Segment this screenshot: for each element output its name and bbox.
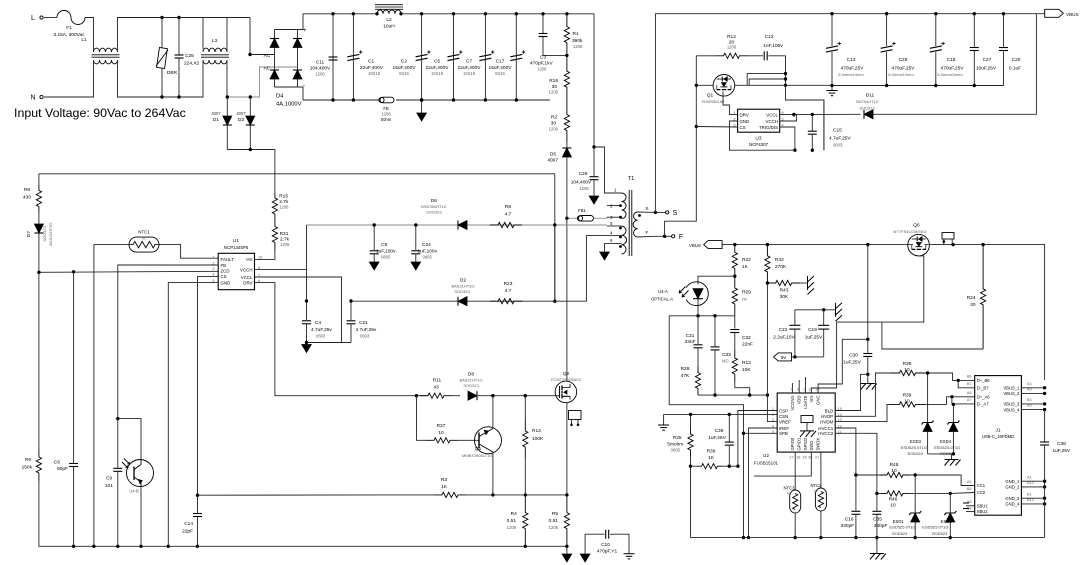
svg-text:10: 10	[890, 503, 896, 509]
wire U3 GND	[730, 121, 794, 150]
resistor R4	[523, 495, 528, 546]
jumper near Q6	[942, 233, 954, 240]
wire R45 to CC1	[910, 475, 975, 486]
svg-text:C6: C6	[54, 460, 60, 466]
wire sense node	[493, 494, 567, 496]
resistor R3	[434, 492, 466, 497]
wire aux line to C4 node	[306, 225, 308, 301]
thermistor NTC2	[820, 452, 822, 488]
svg-text:470uF,25V: 470uF,25V	[941, 66, 965, 72]
TVS ESD1	[914, 475, 916, 513]
svg-text:CS: CS	[221, 274, 227, 279]
svg-text:U3: U3	[755, 136, 761, 142]
net tag 5V	[774, 353, 792, 361]
wire D11 to VBUS rail	[873, 14, 1036, 115]
svg-text:100K: 100K	[532, 436, 544, 442]
wire Q1 gate to DRV	[723, 92, 738, 115]
svg-text:0ohm: 0ohm	[381, 117, 392, 122]
svg-text:ESD5Z5.0T1G: ESD5Z5.0T1G	[901, 445, 927, 450]
T1 pin 3	[607, 216, 622, 218]
common-mode choke L3	[203, 48, 227, 52]
common-mode choke L1	[94, 48, 118, 52]
svg-text:+: +	[303, 28, 307, 34]
wire BLD	[835, 374, 868, 410]
svg-text:R42: R42	[775, 257, 784, 263]
svg-text:C15: C15	[833, 128, 842, 134]
T1 pin 4	[607, 235, 622, 237]
svg-text:SPB: SPB	[779, 431, 788, 436]
wire F node vertical	[695, 56, 697, 127]
svg-text:B4: B4	[1027, 398, 1032, 402]
bus DC+ top rail	[303, 13, 377, 15]
wire D2 line	[351, 300, 555, 302]
svg-text:1K: 1K	[441, 484, 448, 490]
wire D1 D3 join to R15 column	[227, 150, 275, 194]
svg-text:USB-C_16PDMD: USB-C_16PDMD	[982, 434, 1014, 439]
svg-text:22pF: 22pF	[182, 529, 193, 535]
svg-text:ESD3: ESD3	[910, 439, 922, 444]
resistor R9	[36, 449, 41, 481]
MOSFET Q2	[555, 381, 577, 403]
svg-text:D5: D5	[550, 152, 556, 158]
svg-text:4.7: 4.7	[505, 288, 512, 294]
svg-text:CC2: CC2	[977, 490, 986, 495]
svg-text:U1: U1	[233, 238, 239, 244]
svg-text:104,400V: 104,400V	[571, 180, 592, 186]
bus output gnd rail	[832, 85, 1004, 87]
svg-text:VCCL: VCCL	[766, 112, 778, 117]
svg-text:A1: A1	[1027, 475, 1032, 479]
svg-text:1206: 1206	[549, 525, 559, 530]
wire ESD gnd	[928, 453, 954, 455]
wire left column down	[38, 174, 40, 185]
svg-text:NTC1: NTC1	[138, 230, 150, 235]
capacitor C25	[178, 18, 180, 55]
svg-text:6.3mmx04mm: 6.3mmx04mm	[937, 72, 963, 77]
wire R3 line	[198, 494, 435, 496]
connector J1 USB-C_16PDMD	[975, 376, 1022, 516]
wire GND pins to column	[1021, 480, 1044, 482]
svg-text:ZCD: ZCD	[221, 269, 230, 274]
svg-text:1uF,25V: 1uF,25V	[708, 435, 726, 441]
wire HVDP to R38	[835, 373, 890, 416]
svg-text:0603: 0603	[316, 334, 326, 339]
svg-text:R22: R22	[742, 257, 751, 263]
svg-text:330pF: 330pF	[841, 523, 855, 529]
resistor R12	[696, 55, 715, 57]
svg-text:R12: R12	[727, 34, 736, 40]
svg-text:B7: B7	[967, 382, 972, 386]
svg-text:R23: R23	[504, 281, 513, 287]
wire VBUS pins to C38 column	[1021, 387, 1044, 389]
svg-text:GND: GND	[221, 280, 231, 285]
capacitor C19	[823, 310, 825, 325]
wire C30 node to U2	[818, 339, 868, 393]
svg-text:F: F	[646, 230, 649, 236]
svg-text:0.51: 0.51	[507, 518, 517, 524]
svg-text:DRV: DRV	[243, 280, 252, 285]
svg-text:B1: B1	[1027, 492, 1032, 496]
T1 secondary dot	[638, 214, 641, 217]
svg-text:ESD1: ESD1	[893, 519, 905, 524]
svg-text:HVCC1: HVCC1	[818, 426, 833, 431]
diode D5	[566, 142, 568, 148]
svg-text:C22: C22	[779, 327, 788, 333]
svg-text:C14: C14	[184, 521, 193, 527]
wire aux to D2 line	[554, 225, 556, 301]
capacitor C15	[811, 114, 813, 130]
wire HVDM to R39	[835, 404, 890, 421]
svg-text:224,X2: 224,X2	[184, 61, 200, 67]
svg-text:A6: A6	[967, 391, 972, 395]
svg-text:R6: R6	[505, 204, 511, 210]
capacitor C14	[197, 495, 199, 513]
svg-text:C33: C33	[722, 352, 731, 358]
wire U1 VCCL to C4 bottom rail	[255, 277, 342, 343]
wire aux winding line	[307, 224, 608, 226]
svg-text:R28: R28	[681, 366, 690, 372]
svg-text:10uF,25V: 10uF,25V	[976, 66, 997, 72]
svg-text:SBU2: SBU2	[977, 509, 989, 514]
svg-text:R39: R39	[903, 393, 912, 399]
svg-text:470pF,Y1: 470pF,Y1	[597, 549, 618, 555]
svg-text:CSN: CSN	[779, 414, 788, 419]
svg-text:HVCC2: HVCC2	[818, 431, 833, 436]
capacitor C39	[725, 441, 734, 443]
svg-text:VCONN: VCONN	[790, 396, 795, 411]
svg-text:R31: R31	[280, 231, 289, 237]
svg-text:1206: 1206	[315, 72, 325, 77]
svg-text:C2: C2	[401, 59, 407, 65]
svg-text:C20: C20	[1012, 57, 1021, 63]
svg-text:SWD: SWD	[809, 441, 814, 451]
capacitor C8	[373, 225, 375, 250]
wire opto network bottom	[735, 382, 750, 395]
primary ground	[566, 546, 568, 554]
wire R24 down to gate node	[882, 322, 983, 349]
svg-text:BAS21HT1G: BAS21HT1G	[459, 378, 482, 383]
svg-text:FDMS86180: FDMS86180	[702, 99, 725, 104]
svg-text:A7: A7	[967, 398, 972, 402]
ground at pin 6	[604, 243, 606, 252]
diode D2	[458, 297, 467, 306]
svg-text:C30: C30	[849, 353, 858, 359]
TVS ESD2	[949, 493, 951, 513]
capacitor C2	[421, 14, 423, 100]
svg-text:R11: R11	[433, 378, 442, 384]
svg-text:10: 10	[891, 468, 897, 474]
svg-text:8X16: 8X16	[399, 71, 409, 76]
wire cap gnd node	[795, 309, 836, 311]
svg-text:1206: 1206	[381, 112, 391, 117]
MOSFET Q6	[908, 234, 930, 256]
T1 secondary F lead	[638, 235, 665, 238]
svg-text:470uF,25V: 470uF,25V	[841, 66, 865, 72]
svg-text:VBUS_2: VBUS_2	[1003, 391, 1020, 396]
wire top to L3	[118, 17, 251, 19]
capacitor C20	[1003, 14, 1005, 47]
svg-text:30K: 30K	[780, 294, 789, 300]
wire Q1 drain pins	[747, 74, 785, 86]
capacitor C33	[714, 316, 716, 346]
svg-text:VCCH: VCCH	[240, 267, 252, 272]
diode D11	[864, 110, 873, 119]
svg-text:C17: C17	[496, 59, 505, 65]
svg-text:S: S	[673, 210, 678, 217]
svg-text:1: 1	[772, 407, 774, 411]
svg-text:IREF: IREF	[779, 426, 789, 431]
svg-text:B5: B5	[967, 487, 972, 491]
svg-text:VBUS_3: VBUS_3	[1003, 402, 1020, 407]
wire U1 VCCH to C4	[255, 269, 307, 271]
capacitor C30	[863, 353, 872, 355]
capacitor C32	[730, 329, 739, 331]
svg-text:C5: C5	[434, 59, 440, 65]
svg-text:FUSB15101: FUSB15101	[754, 461, 778, 466]
svg-text:SBU1: SBU1	[977, 504, 989, 509]
inductor L2	[377, 10, 401, 14]
svg-text:R29: R29	[742, 290, 751, 296]
svg-text:FB1: FB1	[578, 208, 586, 213]
capacitor C22	[794, 310, 796, 325]
svg-text:C26: C26	[579, 171, 588, 177]
svg-text:0603: 0603	[833, 143, 843, 148]
svg-text:GPIO1: GPIO1	[797, 437, 802, 450]
svg-text:ESD5Z5.0T1G: ESD5Z5.0T1G	[934, 445, 960, 450]
IC U1 NCP1345P5	[218, 253, 254, 289]
svg-text:SOD323: SOD323	[859, 106, 875, 111]
svg-text:R37: R37	[437, 423, 446, 429]
svg-text:BAS21HT3G: BAS21HT3G	[48, 222, 53, 245]
svg-text:2.2uF,10V: 2.2uF,10V	[773, 335, 795, 341]
svg-text:4.7uF,25v: 4.7uF,25v	[311, 327, 332, 333]
net tag VBUS right	[1045, 9, 1064, 17]
resistor R5	[564, 495, 569, 546]
wire U3 VCCL line	[780, 113, 861, 115]
diode D6	[458, 221, 467, 230]
svg-text:L2: L2	[386, 17, 392, 23]
svg-text:R2: R2	[551, 115, 557, 121]
wire U1 DRV to R11	[255, 283, 428, 396]
svg-text:60pF: 60pF	[57, 466, 68, 472]
svg-text:F: F	[679, 234, 683, 241]
svg-text:C11: C11	[316, 60, 325, 66]
svg-text:22nF: 22nF	[742, 342, 753, 348]
capacitor C5	[453, 14, 455, 100]
svg-text:R38: R38	[903, 361, 912, 367]
terminal L	[44, 17, 57, 19]
resistor R28	[695, 366, 700, 395]
svg-text:U4-A: U4-A	[658, 289, 668, 294]
svg-text:R8: R8	[24, 187, 30, 193]
wire fuse to L1	[85, 18, 94, 53]
svg-text:C13: C13	[847, 57, 856, 63]
resistor R18	[564, 55, 569, 103]
transistor Q5	[475, 427, 502, 454]
svg-text:10: 10	[815, 388, 819, 392]
svg-text:VBUS_1: VBUS_1	[1003, 386, 1020, 391]
svg-text:R15: R15	[279, 194, 288, 200]
wire Q2 source down	[566, 403, 568, 495]
svg-text:SOD323: SOD323	[454, 289, 470, 294]
wire SPB down	[744, 432, 778, 434]
resistor R39	[890, 402, 925, 407]
T1 secondary S lead	[638, 211, 656, 213]
svg-text:10X16: 10X16	[431, 71, 444, 76]
wire R39 to D- pins	[925, 397, 975, 405]
svg-text:33nF: 33nF	[685, 339, 696, 345]
svg-text:AC: AC	[264, 53, 271, 59]
svg-text:FCMT250N65S3: FCMT250N65S3	[551, 377, 582, 382]
svg-text:A5: A5	[967, 480, 972, 484]
wire U4-B emitter to bus	[140, 487, 142, 547]
svg-text:16: 16	[802, 456, 806, 460]
diode D3	[249, 97, 251, 116]
svg-text:U4-B: U4-B	[129, 489, 139, 494]
capacitor C29	[886, 14, 888, 46]
wire HV line	[39, 173, 555, 175]
capacitor C13	[831, 14, 833, 46]
resistor R6	[490, 222, 522, 227]
svg-text:L1: L1	[81, 37, 87, 43]
svg-text:1: 1	[212, 256, 214, 260]
svg-text:C4: C4	[315, 320, 321, 326]
svg-text:1K: 1K	[742, 264, 749, 270]
svg-text:R46: R46	[889, 497, 898, 503]
capacitor C7	[484, 14, 486, 100]
wire L3 top to AC1	[226, 18, 228, 53]
svg-text:C24: C24	[422, 242, 431, 248]
svg-text:SOD323: SOD323	[463, 383, 479, 388]
svg-text:FB: FB	[221, 263, 227, 268]
svg-text:C39: C39	[715, 428, 724, 434]
svg-text:SWDX: SWDX	[816, 438, 821, 451]
jumper J2 near Q2	[569, 411, 582, 420]
svg-text:1206: 1206	[549, 90, 559, 95]
svg-text:0805: 0805	[423, 255, 433, 260]
svg-text:VBUS: VBUS	[689, 243, 701, 248]
svg-text:HV: HV	[246, 257, 252, 262]
wire CSN route	[664, 413, 778, 415]
svg-text:C31: C31	[686, 333, 695, 339]
resistor R42	[765, 245, 770, 283]
svg-text:SOD523: SOD523	[932, 531, 948, 536]
wire TRIG/DIS down	[780, 127, 795, 150]
svg-text:0.51: 0.51	[549, 518, 559, 524]
wire U3 gnd to rail	[823, 100, 825, 150]
wire S to rail	[654, 14, 656, 213]
wire L1 top right	[118, 18, 204, 53]
capacitor C10	[585, 534, 604, 554]
svg-text:GNC: GNC	[816, 396, 821, 405]
wire NTC1 left	[94, 245, 131, 547]
svg-text:VIN: VIN	[809, 396, 814, 403]
svg-text:3: 3	[212, 267, 214, 271]
capacitor C24	[415, 225, 417, 250]
diode D7	[38, 212, 40, 224]
svg-text:-: -	[303, 83, 305, 89]
wire NTC1 right to FAULT	[157, 245, 218, 259]
resistor R19	[732, 350, 737, 382]
svg-text:10X16: 10X16	[368, 71, 381, 76]
svg-text:R1: R1	[573, 31, 579, 37]
svg-text:Q5: Q5	[475, 446, 482, 452]
svg-text:NCP1345P5: NCP1345P5	[224, 245, 249, 250]
IC U2 FUSB15101	[777, 393, 835, 452]
resistor R36	[691, 465, 698, 467]
optocoupler U4-B	[127, 460, 154, 487]
resistor R31	[272, 219, 277, 250]
wire L3 bottom to AC2	[226, 60, 228, 97]
wire R31 to HV pin	[255, 250, 275, 259]
svg-text:NCP4307: NCP4307	[749, 142, 769, 147]
capacitor C38	[1044, 410, 1046, 442]
wire ZCD down to C6	[73, 272, 75, 463]
capacitor C16	[855, 475, 857, 511]
svg-text:20: 20	[808, 456, 812, 460]
wire HVCC2 to CC2	[835, 433, 877, 493]
svg-text:FB: FB	[383, 106, 389, 111]
svg-text:C27: C27	[983, 57, 992, 63]
wire L1 bottom right	[118, 60, 204, 97]
svg-text:C29: C29	[899, 57, 908, 63]
svg-text:R13: R13	[742, 360, 751, 366]
svg-text:U2: U2	[763, 453, 769, 459]
svg-text:nc: nc	[787, 491, 791, 496]
svg-text:CS: CS	[740, 125, 746, 130]
svg-text:C21: C21	[359, 320, 368, 326]
resistor R22	[732, 245, 737, 277]
svg-text:VBUS_4: VBUS_4	[1003, 407, 1020, 412]
svg-text:R43: R43	[780, 288, 789, 294]
svg-text:FAULT: FAULT	[221, 257, 235, 262]
svg-text:D1: D1	[213, 117, 219, 123]
svg-text:10X16: 10X16	[463, 71, 476, 76]
capacitor C27	[973, 14, 975, 47]
svg-text:4.7uF,25V: 4.7uF,25V	[829, 136, 851, 142]
wire U1 CS down	[198, 276, 219, 495]
svg-text:150k: 150k	[22, 465, 33, 471]
resistor R46	[877, 492, 880, 494]
svg-text:ESD5Z5.0T1G: ESD5Z5.0T1G	[922, 525, 948, 530]
svg-text:D3: D3	[238, 117, 244, 123]
svg-text:GND_1: GND_1	[1005, 479, 1020, 484]
svg-text:GND_2: GND_2	[1005, 485, 1020, 490]
svg-text:C32: C32	[742, 335, 751, 341]
svg-text:C7: C7	[466, 59, 472, 65]
resistor R15	[272, 193, 277, 219]
svg-text:C12: C12	[765, 34, 774, 40]
wire Q5 collector	[492, 396, 494, 429]
svg-text:4007: 4007	[211, 111, 221, 116]
svg-text:BAT54HT1G: BAT54HT1G	[856, 99, 879, 104]
svg-text:A4: A4	[1027, 382, 1032, 386]
capacitor C31	[697, 316, 699, 344]
svg-text:5V: 5V	[781, 355, 786, 360]
svg-text:0805: 0805	[671, 448, 681, 453]
svg-text:TRIG/DIS: TRIG/DIS	[759, 125, 778, 130]
svg-text:C25: C25	[185, 53, 194, 59]
svg-text:nc: nc	[742, 298, 748, 303]
diode D8	[452, 395, 460, 397]
svg-text:VCCH: VCCH	[766, 119, 778, 124]
svg-text:30: 30	[970, 302, 976, 308]
svg-text:AC: AC	[264, 66, 271, 72]
svg-text:430: 430	[23, 195, 31, 201]
svg-text:LGATE: LGATE	[803, 395, 808, 409]
svg-text:C8: C8	[381, 242, 387, 248]
net tag VBUS input	[704, 241, 722, 249]
